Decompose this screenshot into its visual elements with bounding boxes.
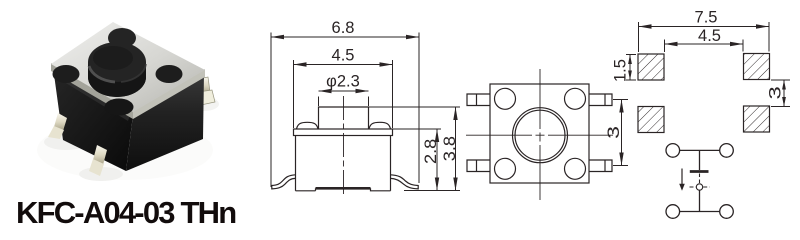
svg-text:3: 3 — [766, 86, 784, 99]
svg-text:2.8: 2.8 — [421, 139, 440, 164]
svg-text:3: 3 — [605, 126, 623, 139]
svg-text:4.5: 4.5 — [332, 47, 355, 65]
svg-text:3.8: 3.8 — [440, 136, 459, 161]
svg-text:7.5: 7.5 — [695, 9, 718, 27]
svg-text:φ2.3: φ2.3 — [326, 73, 360, 91]
svg-text:4.5: 4.5 — [698, 27, 721, 45]
svg-text:6.8: 6.8 — [332, 19, 355, 37]
svg-text:1.5: 1.5 — [612, 59, 630, 82]
